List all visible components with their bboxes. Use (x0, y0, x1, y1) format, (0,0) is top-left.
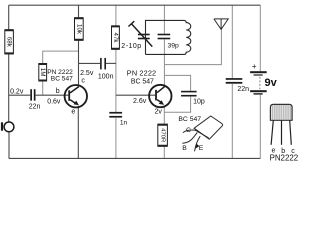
svg-text:PN2222: PN2222 (270, 154, 299, 163)
svg-text:22n: 22n (237, 86, 249, 93)
svg-text:0.6v: 0.6v (47, 99, 61, 106)
svg-text:10p: 10p (193, 98, 205, 105)
svg-text:39p: 39p (168, 42, 180, 49)
svg-text:10k: 10k (75, 24, 82, 35)
svg-text:2v: 2v (155, 108, 163, 115)
svg-text:PN 2222: PN 2222 (127, 69, 156, 78)
svg-text:7: 7 (197, 116, 201, 123)
svg-text:e: e (71, 109, 75, 116)
svg-text:B: B (182, 145, 187, 152)
svg-text:2.6v: 2.6v (133, 98, 147, 105)
svg-text:+: + (252, 62, 257, 71)
svg-text:68k: 68k (6, 37, 13, 48)
svg-text:BC 54: BC 54 (178, 116, 197, 123)
svg-text:2.5v: 2.5v (80, 70, 94, 77)
svg-text:E: E (199, 145, 204, 152)
svg-text:0.2v: 0.2v (10, 89, 24, 96)
svg-text:2-10p: 2-10p (121, 43, 141, 50)
svg-text:1n: 1n (120, 119, 128, 126)
svg-text:BC 547: BC 547 (51, 76, 73, 83)
svg-text:47k: 47k (112, 33, 119, 44)
svg-text:BC 547: BC 547 (131, 79, 154, 86)
svg-text:C: C (186, 127, 191, 134)
svg-text:b: b (56, 88, 60, 95)
svg-text:22n: 22n (29, 104, 41, 111)
svg-text:470R: 470R (160, 128, 166, 142)
svg-text:100n: 100n (98, 73, 114, 80)
svg-text:1M: 1M (39, 68, 46, 77)
svg-text:9v: 9v (265, 77, 278, 89)
svg-text:c: c (81, 78, 85, 85)
